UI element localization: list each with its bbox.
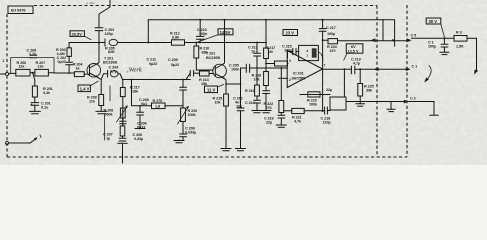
capacitor C203 bbox=[95, 0, 114, 43]
wire between R206 R207 bbox=[30, 72, 35, 74]
chain C feed wire bbox=[132, 80, 141, 106]
resistor R216 chain bbox=[245, 85, 262, 113]
opamp output wire bbox=[323, 68, 352, 70]
svg-text:0,033µ: 0,033µ bbox=[185, 131, 196, 135]
board label box BJ 0378 bbox=[8, 6, 33, 14]
T202 emitter down bbox=[224, 78, 226, 94]
svg-text:3,3k: 3,3k bbox=[43, 91, 51, 95]
svg-text:C 209: C 209 bbox=[168, 58, 178, 62]
capacitor C210 bbox=[196, 20, 208, 44]
svg-text:IC 201: IC 201 bbox=[293, 72, 304, 76]
svg-text:100k: 100k bbox=[188, 113, 197, 117]
svg-text:R 3: R 3 bbox=[456, 31, 462, 35]
dashed shield line bbox=[406, 5, 408, 157]
balance network rectangle bbox=[299, 45, 323, 60]
supply feed wire C5 bbox=[323, 39, 409, 42]
label C209 bbox=[168, 58, 179, 67]
feedback vertical from apex bbox=[322, 40, 324, 69]
resistor R225 bbox=[356, 68, 374, 106]
svg-text:BC239B: BC239B bbox=[103, 60, 117, 64]
feedback wire up to input bbox=[280, 68, 282, 101]
resistor R217 bbox=[264, 20, 276, 65]
opamp input wire bbox=[250, 67, 288, 69]
resistor R219 horizontal bbox=[266, 61, 288, 66]
op-amp U1 triangle bbox=[287, 51, 325, 88]
capacitor C204b electrolytic coupling bbox=[101, 66, 190, 80]
svg-text:a. 26V: a. 26V bbox=[86, 1, 95, 5]
capacitor C216 bbox=[264, 113, 286, 128]
T201 emitter wire bbox=[98, 78, 101, 95]
svg-text:11k: 11k bbox=[38, 65, 45, 69]
ground stub on C2 wire bbox=[387, 102, 395, 112]
svg-text:22µ: 22µ bbox=[266, 121, 272, 125]
capacitor C218 bbox=[321, 107, 332, 125]
arrow out at shield C2 bbox=[404, 100, 409, 104]
capacitor C219 electrolytic output bbox=[344, 58, 410, 98]
arrow into border on C1 wire bbox=[374, 67, 379, 71]
svg-text:23 V: 23 V bbox=[286, 31, 295, 36]
svg-text:C 1: C 1 bbox=[412, 65, 418, 69]
svg-text:4,7k: 4,7k bbox=[294, 120, 302, 124]
transistor T202 bbox=[206, 52, 226, 79]
svg-text:22µ: 22µ bbox=[326, 88, 332, 92]
voltage box 6V 13.5V bbox=[344, 44, 363, 60]
resistor R212 bbox=[170, 32, 196, 46]
capacitor C202 bbox=[57, 56, 73, 74]
svg-text:6V: 6V bbox=[351, 45, 356, 49]
svg-text:100µ: 100µ bbox=[327, 32, 335, 36]
svg-text:C 217: C 217 bbox=[326, 26, 336, 30]
supply rail bbox=[148, 19, 383, 21]
arrow into border on C5 wire bbox=[371, 38, 376, 42]
resistor R211 box on second chain bbox=[120, 79, 125, 126]
wire input to R206 bbox=[0, 72, 16, 75]
capacitor C207 below trimmer bbox=[174, 122, 196, 143]
resistor R221 bbox=[284, 108, 324, 123]
chain C labels left bbox=[130, 86, 149, 107]
resistor R215 bbox=[213, 94, 232, 151]
svg-text:0µ22: 0µ22 bbox=[149, 62, 157, 66]
svg-text:120p: 120p bbox=[105, 32, 114, 36]
resistor R224 bbox=[327, 39, 338, 53]
ground below C201 bbox=[30, 105, 41, 114]
node junction tap bbox=[32, 72, 34, 74]
output wire down right edge bbox=[474, 38, 478, 74]
wire C2 row bbox=[346, 101, 406, 103]
resistor R203 bbox=[56, 43, 71, 63]
svg-text:10k: 10k bbox=[254, 78, 261, 82]
resistor R206 bbox=[16, 61, 30, 76]
svg-text:11 V: 11 V bbox=[207, 88, 215, 93]
svg-text:11k: 11k bbox=[89, 100, 96, 104]
svg-text:10k: 10k bbox=[215, 101, 222, 105]
wire tap down to R201 bbox=[33, 73, 35, 86]
resistor R209 emitter bbox=[87, 95, 104, 106]
voltage box 26.5V bbox=[70, 31, 91, 40]
svg-text:14,5V: 14,5V bbox=[220, 30, 231, 35]
resistor R207 bbox=[35, 61, 49, 76]
resistor R210 bbox=[194, 42, 213, 71]
wire to R210 bbox=[196, 42, 266, 44]
input terminal node 1 bbox=[2, 59, 8, 76]
wire R201 to C201 bbox=[34, 97, 36, 103]
svg-text:0,1u: 0,1u bbox=[41, 106, 49, 110]
voltage box 1.4V bbox=[78, 81, 98, 91]
node collector junction bbox=[98, 42, 100, 44]
rail drop to signal wire bbox=[147, 20, 149, 43]
svg-text:C 214: C 214 bbox=[245, 101, 256, 105]
svg-text:,Werk: ,Werk bbox=[127, 67, 142, 74]
svg-text:R 270: R 270 bbox=[153, 99, 163, 103]
emitter output wire bbox=[226, 83, 241, 85]
signal wire y42 bbox=[148, 42, 171, 44]
svg-text:0µ47: 0µ47 bbox=[58, 60, 66, 64]
svg-text:R 216: R 216 bbox=[245, 89, 255, 93]
arrow out at shield C5 bbox=[407, 38, 412, 42]
resistor R204 bbox=[73, 63, 84, 77]
resistor R201 bbox=[32, 86, 52, 97]
resistor R3 bbox=[454, 31, 477, 49]
external supply wire right bbox=[412, 37, 454, 39]
svg-text:100k: 100k bbox=[309, 103, 318, 107]
wire R202 to T201 base bbox=[84, 73, 87, 75]
svg-text:6,8k: 6,8k bbox=[172, 36, 180, 40]
capacitor C1 electrolytic bbox=[428, 38, 449, 54]
capacitor C204 electrolytic on collector output bbox=[99, 39, 148, 46]
svg-text:13,5 V: 13,5 V bbox=[348, 50, 359, 54]
svg-text:11k: 11k bbox=[19, 65, 26, 69]
resistor R222 bbox=[264, 101, 284, 113]
trimmer chain R208 bbox=[104, 86, 128, 122]
svg-text:1,8: 1,8 bbox=[155, 105, 160, 109]
resistor R218 bbox=[252, 64, 272, 113]
svg-text:BJ 0378: BJ 0378 bbox=[11, 8, 26, 13]
resistor R214 bbox=[199, 71, 213, 86]
svg-text:0µ22: 0µ22 bbox=[171, 63, 179, 67]
svg-text:1: 1 bbox=[2, 59, 4, 63]
chain C resistor box horizontal bbox=[139, 99, 183, 109]
capacitor C208 bridge bbox=[11, 49, 54, 74]
T201 collector wire up bbox=[98, 43, 100, 64]
svg-text:100n: 100n bbox=[231, 68, 240, 72]
rail end drop n-shape bbox=[383, 20, 395, 46]
svg-text:C 2: C 2 bbox=[410, 97, 416, 101]
capacitor C206a below trimmer bbox=[103, 114, 143, 163]
capacitor C211 coupling into tone chain bbox=[180, 87, 187, 90]
C2 external wire with terminal bbox=[409, 102, 439, 116]
svg-text:270: 270 bbox=[266, 106, 272, 110]
svg-text:1,5K: 1,5K bbox=[456, 45, 464, 49]
capacitor C212 chain bbox=[233, 83, 246, 151]
trimmer R220 chain at x183 bbox=[178, 79, 198, 124]
voltage box 23V bbox=[283, 30, 298, 36]
svg-text:30 V: 30 V bbox=[429, 19, 438, 24]
transistor T201 bbox=[87, 46, 117, 77]
svg-text:1µ: 1µ bbox=[106, 137, 110, 141]
capacitor C209 series bbox=[186, 71, 200, 80]
capacitor C205 series to opamp bbox=[229, 64, 250, 85]
capacitor C206 chain at x140 bbox=[135, 106, 147, 130]
svg-text:0,33µ: 0,33µ bbox=[134, 137, 143, 141]
voltage box 11V bbox=[205, 85, 224, 93]
output down to feedback row bbox=[322, 69, 324, 111]
capacitor C213 chain bbox=[248, 42, 260, 86]
svg-text:4,7µ: 4,7µ bbox=[353, 62, 360, 66]
arrow out at shield C1 bbox=[406, 67, 411, 71]
svg-text:18k: 18k bbox=[132, 90, 139, 94]
ground below R209 bbox=[96, 106, 107, 114]
svg-text:39k: 39k bbox=[366, 89, 373, 93]
voltage box 30V bbox=[426, 18, 444, 37]
T202 collector to rail bbox=[223, 20, 224, 64]
svg-text:470: 470 bbox=[330, 49, 336, 53]
svg-text:82K: 82K bbox=[108, 50, 115, 54]
dashed enclosure border bbox=[7, 6, 407, 158]
label C211 bbox=[147, 58, 158, 66]
svg-text:C 5: C 5 bbox=[411, 34, 417, 38]
wire R207 to C202 node bbox=[48, 72, 74, 74]
svg-text:110p: 110p bbox=[323, 121, 332, 125]
resistor R223 network bbox=[300, 88, 332, 107]
junction box bbox=[330, 97, 346, 110]
C1 hook curved arrow bbox=[424, 66, 431, 83]
svg-text:15k: 15k bbox=[201, 82, 208, 86]
svg-text:26,5V: 26,5V bbox=[72, 32, 83, 37]
capacitor C201 bbox=[30, 102, 50, 110]
svg-text:BC239B: BC239B bbox=[206, 56, 220, 60]
svg-text:560k: 560k bbox=[105, 113, 114, 117]
svg-text:100µ: 100µ bbox=[428, 45, 436, 49]
svg-text:SN72558: SN72558 bbox=[292, 77, 306, 81]
output arrow lower left bbox=[5, 135, 41, 145]
voltage box 14.5V bbox=[199, 29, 234, 42]
capacitor C215 bbox=[282, 45, 299, 59]
capacitor C217 bbox=[319, 20, 335, 42]
svg-text:1,4 V: 1,4 V bbox=[80, 87, 90, 92]
